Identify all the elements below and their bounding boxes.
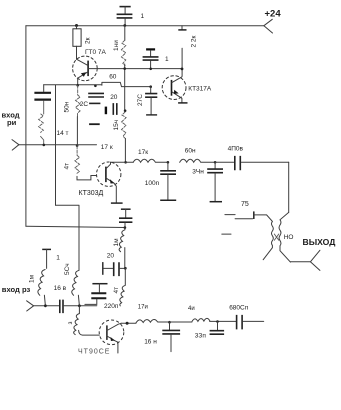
svg-text:вход рз: вход рз: [2, 285, 31, 294]
svg-text:4и: 4и: [188, 306, 195, 312]
transformer core marks: [274, 234, 279, 240]
svg-text:100n: 100n: [145, 180, 160, 187]
node junction rail x76: [75, 24, 78, 27]
svg-text:14 т: 14 т: [57, 130, 69, 137]
inductor 1m x125: [113, 228, 125, 269]
capacitor 100n: [145, 162, 176, 200]
svg-text:2 2к: 2 2к: [191, 35, 198, 47]
svg-text:27С: 27С: [137, 94, 144, 106]
capacitor C top (1): [117, 7, 145, 26]
wire bus to second inductor: [170, 321, 192, 323]
svg-text:75: 75: [241, 201, 249, 208]
resistor 15ch zigzag: [113, 112, 126, 139]
svg-text:1: 1: [141, 13, 145, 20]
node dot 100n: [167, 161, 170, 164]
svg-text:2к: 2к: [85, 37, 92, 44]
transistor Q3 KT903: [78, 320, 124, 355]
svg-text:50н: 50н: [64, 101, 71, 112]
capacitor input RI top plates: [34, 85, 51, 114]
inductor 4t x125: [113, 268, 125, 306]
svg-text:ВЫХОД: ВЫХОД: [303, 237, 336, 247]
svg-text:5Сч: 5Сч: [64, 263, 71, 275]
svg-text:КТ317А: КТ317А: [188, 86, 212, 93]
svg-text:20: 20: [110, 94, 118, 101]
node dot x125 y110.7: [124, 109, 127, 112]
wire 4t to Q2 base: [77, 176, 96, 180]
wire 14k corner to 50ch column: [56, 205, 80, 270]
wire left rail down: [25, 26, 27, 227]
node +24 break chevron: [264, 19, 273, 33]
svg-text:17к: 17к: [138, 149, 148, 156]
transformer left winding: [254, 211, 273, 259]
node junction rail x125: [123, 24, 126, 27]
transistor KT317A: [162, 76, 212, 103]
svg-text:60: 60: [109, 74, 117, 81]
svg-text:2С: 2С: [80, 101, 89, 108]
node dot 34n: [214, 161, 217, 164]
transistor Q2 KT303D: [79, 162, 121, 203]
inductor 60n: [180, 148, 215, 163]
wire x125 to collector node: [124, 139, 126, 163]
capacitor 33n: [195, 322, 224, 340]
node dot RZ-1: [44, 304, 47, 307]
node dot 27C junction: [149, 85, 152, 88]
capacitor above bus227: [119, 209, 132, 227]
svg-text:1ни: 1ни: [113, 40, 120, 51]
node dot 33n: [216, 320, 219, 323]
resistor 1ni zigzag: [113, 40, 126, 66]
node dot collector: [124, 161, 127, 164]
capacitor cluster thick bar: [105, 107, 107, 115]
svg-text:ри: ри: [7, 118, 17, 127]
svg-text:60н: 60н: [185, 148, 196, 155]
resistor 14k line: [56, 85, 69, 205]
capacitor 20 horizontal: [103, 253, 125, 277]
wire x125 mid: [124, 64, 126, 111]
wire RI bus: [19, 144, 97, 146]
capacitor series RZ: [60, 300, 63, 314]
capacitor 34n: [192, 162, 223, 201]
wire +24 supply rail: [26, 25, 264, 27]
wire down to transformer: [288, 162, 290, 212]
node dot base bus x124.7: [123, 67, 126, 70]
svg-text:1м: 1м: [113, 238, 120, 247]
resistor 4t zigzag: [64, 146, 80, 174]
svg-text:ЧТ90СЕ: ЧТ90СЕ: [78, 348, 110, 355]
wire 75 dash a: [225, 214, 235, 216]
wire bottom bus from rail: [26, 226, 125, 227]
resistor R 2k box: [73, 26, 92, 60]
ground KT317A emitter: [178, 102, 187, 104]
capacitor 6800p series: [229, 305, 264, 330]
capacitor C 1 (near KT317A base bus): [143, 49, 169, 68]
wire to RI bus: [41, 136, 44, 144]
svg-text:ГТ0 7А: ГТ0 7А: [85, 49, 107, 56]
transformer right winding: [279, 212, 290, 262]
wire RZ bus right: [64, 305, 97, 307]
wire Q1 emitter bus: [44, 82, 152, 86]
svg-text:1: 1: [56, 254, 60, 261]
node dot KT317A top: [181, 68, 184, 71]
svg-text:4П0в: 4П0в: [228, 145, 244, 152]
wire Q1 base bus y68.6: [88, 68, 182, 70]
svg-text:з: з: [67, 322, 74, 325]
svg-text:17 к: 17 к: [101, 144, 113, 151]
resistor 2.2k top right: [178, 26, 197, 77]
resistor 50ch column: [64, 263, 79, 305]
resistor 50n zigzag: [64, 85, 81, 145]
svg-text:КТ303Д: КТ303Д: [79, 190, 104, 197]
svg-text:17и: 17и: [138, 305, 148, 311]
svg-text:15ч: 15ч: [113, 120, 120, 131]
svg-text:+24: +24: [265, 9, 282, 20]
capacitor cluster plates a: [88, 93, 104, 97]
capacitor cluster plate c: [89, 123, 100, 125]
wire collector node y162: [111, 161, 134, 163]
node dot e1: [76, 84, 79, 87]
node dot e2: [94, 85, 97, 88]
capacitor 27C to ground: [137, 87, 157, 115]
inductor 1m input RZ: [29, 270, 46, 306]
node dot cap1 on base bus: [149, 68, 152, 71]
svg-text:4т: 4т: [64, 163, 71, 170]
capacitor 20 vertical plates: [110, 94, 118, 115]
capacitor 4700 series: [215, 145, 289, 170]
svg-text:680Сп: 680Сп: [229, 305, 249, 312]
svg-text:1: 1: [165, 56, 169, 63]
inductor bottom a: [136, 305, 170, 323]
svg-text:4т: 4т: [113, 287, 120, 294]
node dot 16n: [168, 321, 171, 324]
svg-text:16 н: 16 н: [144, 339, 157, 346]
node dot RI-2: [76, 144, 79, 147]
wire output: [290, 261, 310, 263]
svg-text:16 в: 16 в: [54, 285, 67, 292]
ground Q2 emitter: [111, 202, 123, 204]
inductor 17k: [133, 149, 168, 162]
capacitor 220p: [85, 284, 119, 310]
transistor Q1 GT07A: [73, 49, 107, 85]
svg-text:1м: 1м: [29, 274, 36, 283]
node input RI chevron: [12, 140, 19, 151]
svg-text:НО: НО: [284, 234, 294, 241]
wire 75 dash b: [222, 233, 231, 235]
node dot Q3 bus: [126, 322, 129, 325]
wire RZ bus left: [34, 305, 59, 307]
capacitor cluster plate b: [89, 102, 100, 104]
svg-text:20: 20: [107, 253, 115, 260]
svg-text:3Чн: 3Чн: [192, 169, 204, 176]
node dot RZ-2: [78, 304, 81, 307]
wire Q3 collector bus: [121, 322, 136, 324]
wire x125 column below rail: [124, 26, 126, 41]
wire 75 step: [235, 218, 253, 220]
capacitor 16n: [144, 322, 180, 351]
svg-text:3Зп: 3Зп: [195, 332, 207, 339]
node dot x125 y268: [124, 267, 127, 270]
node input RZ chevron: [27, 301, 34, 311]
inductor bottom b: [188, 306, 236, 322]
node dot RI-1: [43, 144, 46, 147]
svg-text:220п: 220п: [104, 303, 119, 310]
node T terminal bottom left: [42, 249, 60, 268]
resistor input RI faded zigzag: [39, 114, 44, 132]
node dot bus227 x125: [124, 226, 127, 229]
node output chevron: [310, 250, 320, 270]
resistor z column: [67, 306, 99, 335]
